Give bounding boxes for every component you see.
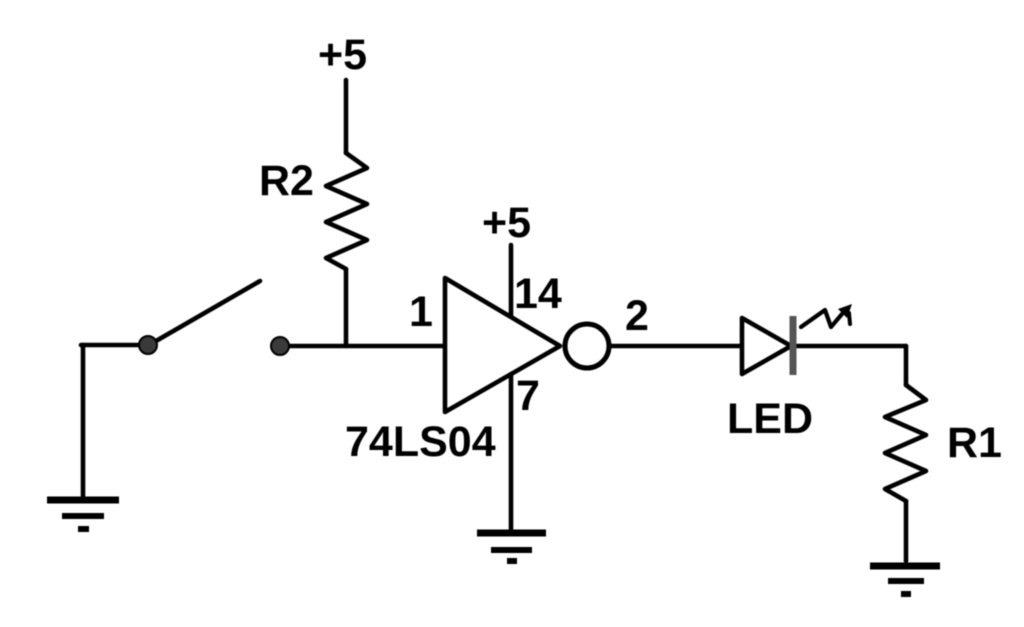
svg-text:R2: R2 <box>259 157 314 205</box>
svg-text:2: 2 <box>625 292 649 340</box>
svg-text:7: 7 <box>516 372 540 420</box>
svg-text:+5: +5 <box>482 199 531 247</box>
svg-text:14: 14 <box>514 270 562 318</box>
svg-text:R1: R1 <box>947 419 1002 467</box>
svg-text:LED: LED <box>727 395 813 443</box>
svg-text:+5: +5 <box>318 31 367 79</box>
svg-text:74LS04: 74LS04 <box>345 418 496 466</box>
svg-text:1: 1 <box>409 288 433 336</box>
